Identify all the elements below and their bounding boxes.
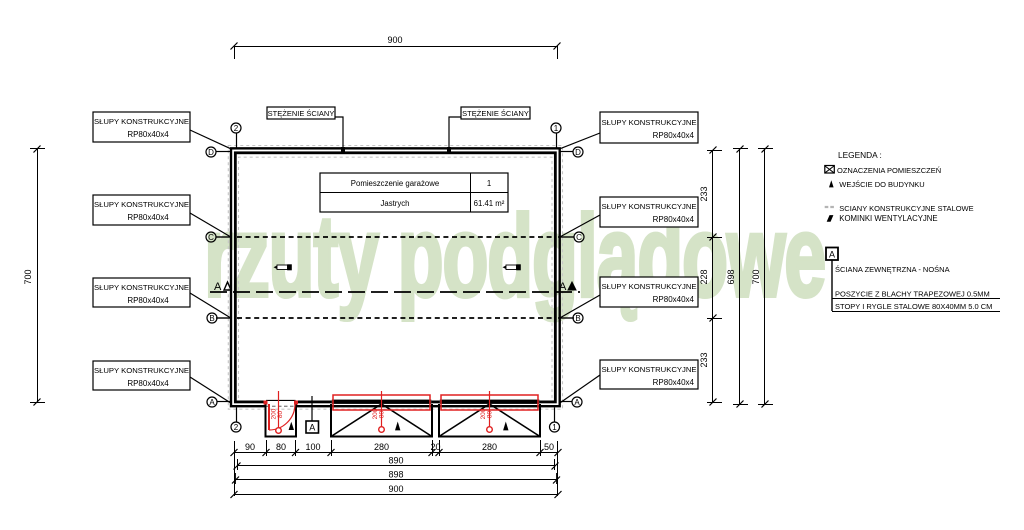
svg-text:80: 80 bbox=[487, 411, 494, 419]
svg-text:RP80x40x4: RP80x40x4 bbox=[127, 296, 169, 305]
bottom dimension row 1 texts bbox=[245, 442, 554, 452]
svg-text:228: 228 bbox=[699, 269, 709, 284]
vent symbol right bbox=[503, 264, 521, 270]
słupy label R2 bbox=[560, 197, 698, 237]
słupy label R1 bbox=[560, 112, 698, 149]
single door bbox=[264, 391, 299, 437]
svg-text:233: 233 bbox=[699, 352, 709, 367]
svg-text:2: 2 bbox=[234, 124, 239, 133]
top dimension 900 bbox=[231, 35, 561, 59]
svg-text:700: 700 bbox=[23, 269, 33, 284]
garage opening band 2 bbox=[440, 399, 540, 404]
legend item ściany bbox=[825, 204, 974, 213]
svg-text:2: 2 bbox=[234, 423, 239, 432]
svg-text:LEGENDA :: LEGENDA : bbox=[838, 150, 882, 160]
svg-text:SŁUPY KONSTRUKCYJNE: SŁUPY KONSTRUKCYJNE bbox=[601, 118, 696, 127]
svg-text:SŁUPY KONSTRUKCYJNE: SŁUPY KONSTRUKCYJNE bbox=[601, 365, 696, 374]
garage door 2 bbox=[439, 391, 540, 437]
svg-text:C: C bbox=[208, 233, 214, 242]
słupy label L1 bbox=[93, 112, 231, 149]
svg-text:A: A bbox=[209, 398, 215, 407]
garage opening band 1 bbox=[332, 399, 432, 404]
grid circle 2 top bbox=[231, 123, 241, 148]
grid circle C right bbox=[574, 232, 584, 242]
grid circle B left bbox=[207, 313, 217, 323]
svg-text:RP80x40x4: RP80x40x4 bbox=[127, 130, 169, 139]
vent symbol left bbox=[274, 264, 292, 270]
svg-text:61.41 m²: 61.41 m² bbox=[474, 199, 505, 208]
svg-text:WEJŚCIE DO BUDYNKU: WEJŚCIE DO BUDYNKU bbox=[839, 180, 924, 189]
grid circle 1 bottom bbox=[550, 408, 560, 433]
svg-text:RP80x40x4: RP80x40x4 bbox=[653, 215, 695, 224]
legend item oznaczenia bbox=[825, 166, 941, 176]
legend title bbox=[838, 150, 882, 160]
svg-text:SŁUPY KONSTRUKCYJNE: SŁUPY KONSTRUKCYJNE bbox=[601, 282, 696, 291]
grid circle C left bbox=[206, 232, 216, 242]
svg-text:A: A bbox=[309, 423, 315, 433]
svg-text:rzuty podglądowe: rzuty podglądowe bbox=[204, 191, 825, 321]
grid circle A left bbox=[207, 397, 231, 407]
słupy label R4 bbox=[560, 360, 698, 403]
svg-text:RP80x40x4: RP80x40x4 bbox=[127, 213, 169, 222]
svg-text:900: 900 bbox=[387, 35, 402, 45]
svg-text:SŁUPY KONSTRUKCYJNE: SŁUPY KONSTRUKCYJNE bbox=[601, 202, 696, 211]
wall hatch faint outside bbox=[228, 146, 562, 410]
svg-text:A: A bbox=[559, 281, 567, 293]
svg-text:Jastrych: Jastrych bbox=[380, 199, 409, 208]
słupy label L2 bbox=[93, 195, 231, 237]
grid circle 2 bottom bbox=[231, 408, 241, 433]
legend item wejście bbox=[829, 180, 925, 189]
svg-text:STOPY I RYGLE STALOWE 80X40MM: STOPY I RYGLE STALOWE 80X40MM 5.0 CM bbox=[835, 302, 992, 311]
svg-text:898: 898 bbox=[388, 470, 403, 480]
svg-text:B: B bbox=[209, 314, 214, 323]
legend A block bbox=[826, 248, 1000, 312]
svg-text:1: 1 bbox=[554, 124, 559, 133]
left dimension 700 bbox=[23, 146, 45, 406]
svg-text:POSZYCIE Z BLACHY TRAPEZOWEJ 0: POSZYCIE Z BLACHY TRAPEZOWEJ 0.5MM bbox=[835, 290, 990, 299]
legend item kominki bbox=[827, 214, 937, 223]
svg-text:900: 900 bbox=[388, 484, 403, 494]
bottom dimension 890 bbox=[234, 456, 559, 471]
grid circle B right bbox=[573, 313, 583, 323]
right dim 698 bbox=[726, 146, 748, 408]
wall perimeter outer line bbox=[231, 148, 560, 406]
svg-text:RP80x40x4: RP80x40x4 bbox=[127, 379, 169, 388]
bottom dimension 900 bbox=[231, 484, 562, 498]
svg-text:C: C bbox=[576, 233, 582, 242]
grid circle D right bbox=[560, 147, 583, 157]
svg-text:SŁUPY KONSTRUKCYJNE: SŁUPY KONSTRUKCYJNE bbox=[94, 283, 189, 292]
single door opening (wall break) bbox=[266, 399, 296, 408]
svg-text:KOMINKI WENTYLACYJNE: KOMINKI WENTYLACYJNE bbox=[839, 214, 937, 223]
svg-text:80: 80 bbox=[277, 411, 284, 419]
svg-text:280: 280 bbox=[374, 442, 389, 452]
svg-text:1: 1 bbox=[552, 423, 557, 432]
słupy label L3 bbox=[93, 278, 231, 318]
stężenie ściany box right bbox=[447, 107, 530, 153]
svg-text:SCIANY KONSTRUKCYJNE STALOWE: SCIANY KONSTRUKCYJNE STALOWE bbox=[839, 204, 973, 213]
svg-text:ŚCIANA ZEWNĘTRZNA - NOŚNA: ŚCIANA ZEWNĘTRZNA - NOŚNA bbox=[835, 265, 950, 274]
dashed grid line row C bbox=[216, 236, 574, 238]
svg-text:STĘŻENIE ŚCIANY: STĘŻENIE ŚCIANY bbox=[462, 109, 529, 118]
svg-text:A: A bbox=[829, 250, 835, 260]
svg-text:RP80x40x4: RP80x40x4 bbox=[653, 295, 695, 304]
svg-text:SŁUPY KONSTRUKCYJNE: SŁUPY KONSTRUKCYJNE bbox=[94, 117, 189, 126]
right dim line segments 233/228/233 bbox=[699, 147, 722, 406]
svg-text:90: 90 bbox=[245, 442, 255, 452]
bottom dimension row 1 ticks bbox=[231, 449, 562, 456]
svg-text:RP80x40x4: RP80x40x4 bbox=[653, 378, 695, 387]
svg-text:698: 698 bbox=[726, 269, 736, 284]
grid circle D left bbox=[206, 147, 231, 157]
dashed grid line row B bbox=[216, 317, 574, 319]
watermark rzuty podglądowe bbox=[204, 191, 825, 321]
svg-text:80: 80 bbox=[379, 411, 386, 419]
svg-text:Pomieszczenie garażowe: Pomieszczenie garażowe bbox=[351, 179, 439, 188]
grid circle 1 top bbox=[551, 123, 561, 148]
grid circle A right bbox=[560, 397, 582, 407]
right dim 700 bbox=[751, 146, 773, 408]
svg-text:280: 280 bbox=[482, 442, 497, 452]
svg-text:890: 890 bbox=[388, 456, 403, 466]
svg-text:D: D bbox=[208, 148, 214, 157]
svg-text:RP80x40x4: RP80x40x4 bbox=[653, 131, 695, 140]
słupy label L4 bbox=[93, 361, 231, 403]
A marker bottom bbox=[306, 396, 319, 433]
svg-text:A: A bbox=[214, 281, 222, 293]
svg-text:D: D bbox=[575, 148, 581, 157]
svg-text:80: 80 bbox=[276, 442, 286, 452]
svg-text:STĘŻENIE ŚCIANY: STĘŻENIE ŚCIANY bbox=[268, 109, 335, 118]
stężenie ściany box left bbox=[267, 107, 345, 153]
słupy label R3 bbox=[560, 277, 698, 318]
section line A-A bbox=[210, 281, 580, 293]
svg-text:B: B bbox=[575, 314, 580, 323]
svg-text:100: 100 bbox=[305, 442, 320, 452]
svg-text:SŁUPY KONSTRUKCYJNE: SŁUPY KONSTRUKCYJNE bbox=[94, 366, 189, 375]
wall hatch faint inside bbox=[239, 157, 553, 398]
svg-text:SŁUPY KONSTRUKCYJNE: SŁUPY KONSTRUKCYJNE bbox=[94, 200, 189, 209]
svg-text:20: 20 bbox=[430, 442, 440, 452]
svg-text:700: 700 bbox=[751, 269, 761, 284]
bottom dimension row 1 bbox=[234, 440, 558, 496]
svg-text:1: 1 bbox=[487, 179, 491, 188]
garage door 1 bbox=[331, 391, 432, 437]
svg-text:A: A bbox=[574, 398, 580, 407]
wall perimeter inner line bbox=[235, 153, 555, 402]
bottom dimension 898 bbox=[232, 470, 560, 485]
svg-text:OZNACZENIA POMIESZCZEŃ: OZNACZENIA POMIESZCZEŃ bbox=[837, 166, 941, 175]
svg-text:50: 50 bbox=[544, 442, 554, 452]
room table bbox=[320, 173, 508, 212]
svg-text:233: 233 bbox=[699, 186, 709, 201]
